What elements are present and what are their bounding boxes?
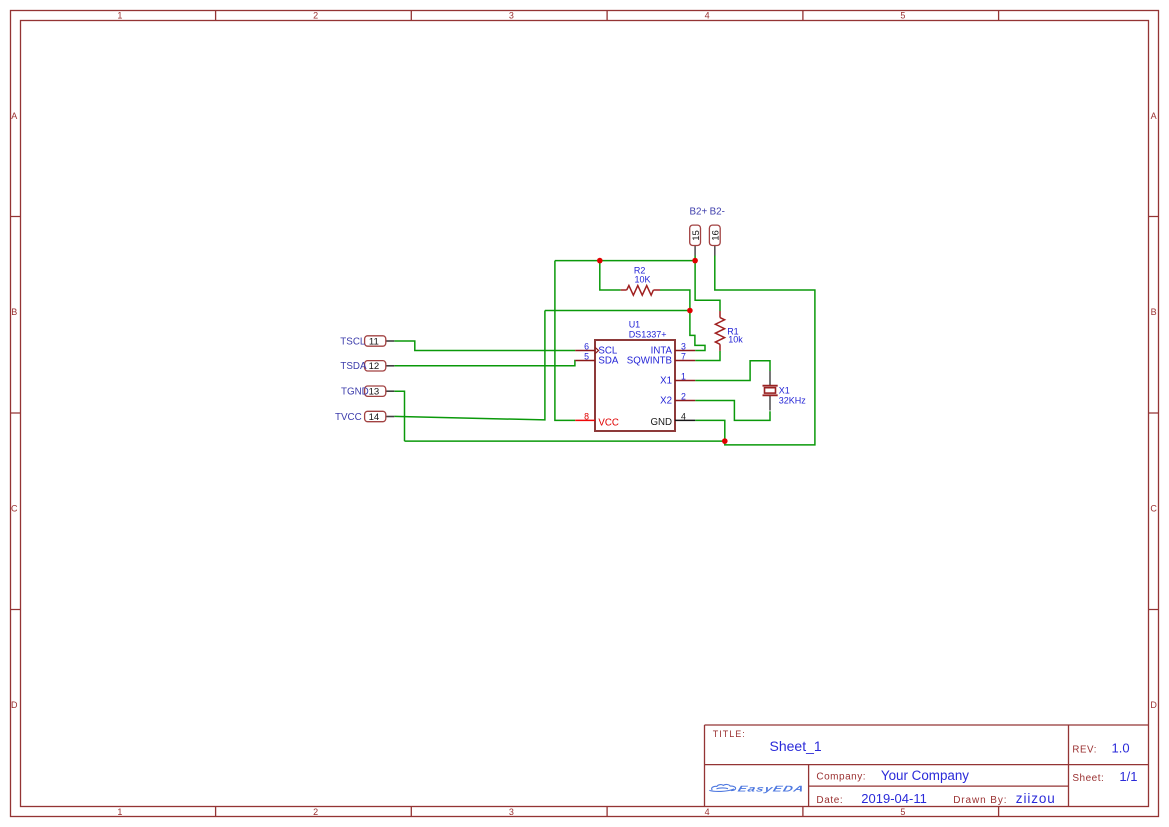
wire TGND xyxy=(394,391,404,441)
svg-text:TSDA: TSDA xyxy=(340,361,367,372)
CIRCUIT xyxy=(335,206,815,445)
node TVCC xyxy=(335,412,362,423)
svg-text:GND: GND xyxy=(650,417,672,428)
svg-text:7: 7 xyxy=(681,351,686,361)
U1 pin 6 SCL xyxy=(575,341,618,356)
wire GND pin 4 jog xyxy=(695,420,725,441)
wire R1 bottom to pin 7 xyxy=(695,351,720,361)
svg-text:TSCL: TSCL xyxy=(340,336,366,347)
X1 labels xyxy=(779,386,807,406)
svg-text:14: 14 xyxy=(369,412,380,423)
junction at VCC rail and R2 left xyxy=(597,258,603,264)
title block xyxy=(705,725,1149,807)
svg-text:REV:: REV: xyxy=(1072,744,1097,755)
wire X2 pin 2 to crystal bottom xyxy=(695,401,770,421)
svg-text:X1: X1 xyxy=(779,386,790,396)
wire TSCL to pin 6 xyxy=(394,341,575,351)
svg-text:1.0: 1.0 xyxy=(1112,741,1130,756)
svg-text:10k: 10k xyxy=(728,334,743,344)
wire B2- pad 16 to ground rail xyxy=(715,256,815,445)
svg-text:U1: U1 xyxy=(629,319,641,329)
pad 16 B2- xyxy=(709,225,721,255)
node B2+ xyxy=(690,206,708,217)
U1 reference label xyxy=(629,319,667,339)
svg-text:2: 2 xyxy=(313,10,318,20)
U1 pin 4 GND xyxy=(650,411,695,428)
svg-text:4: 4 xyxy=(705,10,710,20)
svg-text:12: 12 xyxy=(369,361,380,372)
wire X1 pin 1 to crystal top xyxy=(695,361,770,381)
wire INTA rail xyxy=(545,310,690,312)
svg-text:B: B xyxy=(1151,307,1157,317)
U1 pin 7 SQWINTB xyxy=(627,351,695,366)
svg-text:2: 2 xyxy=(681,391,686,401)
svg-text:4: 4 xyxy=(681,411,686,421)
svg-text:1: 1 xyxy=(117,807,122,817)
U1 pin 8 VCC xyxy=(575,411,619,428)
svg-text:X1: X1 xyxy=(660,376,672,387)
node TSCL xyxy=(340,336,366,347)
svg-text:DS1337+: DS1337+ xyxy=(629,329,667,339)
crystal X1 32KHz xyxy=(763,371,778,411)
op-amp U1 body DS1337+ xyxy=(595,340,675,431)
svg-text:8: 8 xyxy=(584,411,589,421)
svg-text:1/1: 1/1 xyxy=(1119,769,1137,784)
svg-text:D: D xyxy=(11,700,18,710)
svg-text:Your Company: Your Company xyxy=(881,768,969,783)
wire TSDA to pin 5 xyxy=(394,361,575,366)
EasyEDA logo xyxy=(709,784,805,793)
svg-text:Company:: Company: xyxy=(816,772,866,783)
junction at INTA rail and R2 right xyxy=(687,308,693,314)
U1 pin 5 SDA xyxy=(575,351,619,366)
svg-text:5: 5 xyxy=(584,351,589,361)
svg-text:Date:: Date: xyxy=(816,795,843,806)
svg-text:C: C xyxy=(1150,504,1157,514)
svg-text:10K: 10K xyxy=(635,274,651,284)
svg-text:3: 3 xyxy=(509,10,514,20)
wire R2 right leg xyxy=(660,290,690,311)
svg-text:B2+: B2+ xyxy=(690,206,708,217)
wire INTA hook to pin 3 xyxy=(690,311,705,351)
resistor R1 10k vertical xyxy=(715,311,724,351)
svg-text:ziizou: ziizou xyxy=(1016,791,1056,806)
svg-text:C: C xyxy=(11,504,18,514)
svg-text:4: 4 xyxy=(705,807,710,817)
svg-text:32KHz: 32KHz xyxy=(779,396,807,406)
svg-text:5: 5 xyxy=(900,807,905,817)
svg-text:B2-: B2- xyxy=(710,206,725,217)
svg-text:1: 1 xyxy=(117,10,122,20)
U1 pin 3 INTA xyxy=(651,341,696,356)
svg-text:6: 6 xyxy=(584,341,589,351)
svg-text:X2: X2 xyxy=(660,396,672,407)
svg-text:2019-04-11: 2019-04-11 xyxy=(861,791,927,806)
pad 12 TSDA xyxy=(365,361,395,373)
U1 pin 2 X2 xyxy=(660,391,695,406)
svg-text:TVCC: TVCC xyxy=(335,412,362,423)
wire VCC left drop to pin 8 xyxy=(555,261,575,421)
svg-text:11: 11 xyxy=(369,336,379,347)
wire R2 left leg xyxy=(600,261,621,290)
svg-text:Drawn By:: Drawn By: xyxy=(953,795,1007,806)
pad 13 TGND xyxy=(365,386,395,398)
pad 11 TSCL xyxy=(365,336,395,348)
junction at VCC rail and pad 15 xyxy=(692,258,698,264)
R2 labels xyxy=(634,266,651,285)
svg-text:3: 3 xyxy=(681,341,686,351)
svg-text:A: A xyxy=(1151,111,1157,121)
svg-text:15: 15 xyxy=(691,230,702,241)
svg-text:SQWINTB: SQWINTB xyxy=(627,356,672,367)
pad 15 B2+ xyxy=(690,225,702,255)
svg-text:Sheet:: Sheet: xyxy=(1072,773,1104,784)
U1 clock chevron on SCL xyxy=(595,347,599,353)
node B2- xyxy=(710,206,725,217)
svg-text:3: 3 xyxy=(509,807,514,817)
node TSDA xyxy=(340,361,367,372)
svg-text:1: 1 xyxy=(681,371,686,381)
wire VCC top rail B2+ xyxy=(555,260,695,262)
svg-text:TGND: TGND xyxy=(341,387,369,398)
U1 pin 1 X1 xyxy=(660,371,695,386)
wire ground rail xyxy=(405,440,725,442)
svg-text:Sheet_1: Sheet_1 xyxy=(770,738,822,754)
wire B2+ pad 15 down to R1 top xyxy=(695,256,720,312)
R1 labels xyxy=(727,327,743,345)
svg-text:16: 16 xyxy=(711,230,722,241)
node TGND xyxy=(341,387,369,398)
svg-text:VCC: VCC xyxy=(598,418,618,429)
svg-text:B: B xyxy=(11,307,17,317)
svg-text:D: D xyxy=(1150,700,1157,710)
wire TVCC riser and diagonal xyxy=(394,311,545,420)
pad 14 TVCC xyxy=(365,411,395,423)
svg-text:EasyEDA: EasyEDA xyxy=(737,785,806,794)
svg-text:13: 13 xyxy=(369,387,380,398)
junction at ground rail xyxy=(722,438,728,444)
svg-text:5: 5 xyxy=(900,10,905,20)
svg-text:A: A xyxy=(11,111,17,121)
svg-text:SDA: SDA xyxy=(598,356,618,367)
svg-text:TITLE:: TITLE: xyxy=(713,729,746,739)
svg-text:2: 2 xyxy=(313,807,318,817)
resistor R2 10K horizontal xyxy=(621,286,660,296)
